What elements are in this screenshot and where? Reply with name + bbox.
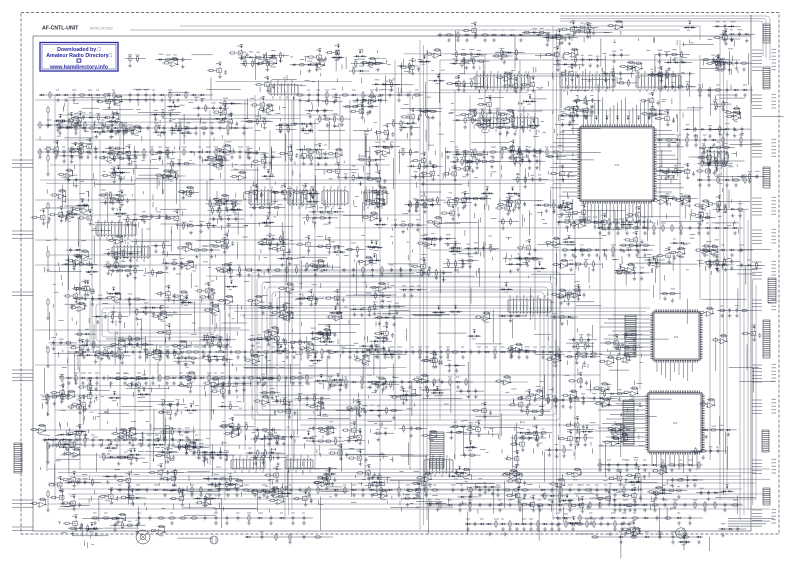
diode D209	[109, 121, 111, 123]
ground	[170, 131, 174, 135]
resistor R142	[552, 151, 560, 153]
IC pin wires	[290, 186, 313, 209]
label	[258, 512, 263, 514]
capacitor C7	[107, 126, 110, 131]
ground	[616, 468, 620, 472]
label	[632, 531, 636, 533]
U3 fan-out wires	[598, 397, 697, 474]
IC pin wires	[510, 295, 547, 317]
resistor R324	[429, 110, 437, 112]
resistor R317	[360, 99, 368, 101]
diode D1	[41, 94, 43, 96]
ground	[361, 493, 365, 497]
diode D3	[65, 94, 67, 96]
transistor Q8	[263, 81, 269, 89]
wire	[578, 31, 612, 33]
label	[498, 499, 501, 501]
ground	[170, 521, 174, 525]
junction	[641, 68, 642, 69]
resistor R226	[298, 64, 306, 66]
ground	[264, 355, 268, 359]
resistor R241	[446, 83, 454, 85]
power arrow	[528, 95, 531, 97]
ground	[557, 355, 561, 359]
resistor R256	[501, 49, 503, 57]
wire	[495, 126, 531, 128]
label	[110, 346, 115, 348]
resistor R38	[307, 348, 309, 356]
diode D123	[646, 536, 648, 538]
power arrow	[488, 96, 491, 98]
label	[243, 59, 247, 61]
ground	[70, 155, 74, 159]
capacitor C198	[658, 52, 661, 57]
transistor Q4	[555, 34, 561, 42]
ground	[456, 38, 460, 42]
power arrow	[595, 116, 598, 118]
resistor R128	[113, 439, 121, 441]
power arrow	[112, 115, 115, 117]
label	[325, 89, 329, 91]
diode D205	[118, 130, 120, 132]
op-amp A1	[614, 24, 623, 29]
label	[416, 376, 421, 378]
diode D190	[572, 63, 574, 65]
label	[579, 216, 583, 218]
ground	[107, 106, 111, 110]
label	[370, 96, 373, 98]
wire	[573, 99, 601, 101]
power arrow	[184, 127, 187, 129]
diode D150	[644, 249, 646, 251]
resistor R300	[258, 108, 266, 110]
ground	[144, 98, 148, 102]
diode D95	[559, 221, 561, 223]
transistor Q9	[315, 53, 321, 61]
resistor R325	[460, 113, 468, 115]
label	[259, 97, 263, 99]
diode D4	[89, 94, 91, 96]
resistor R123	[694, 501, 696, 509]
ground	[712, 253, 716, 257]
resistor R132	[341, 94, 349, 96]
label	[370, 104, 374, 106]
ground	[262, 109, 266, 113]
diode D25	[76, 351, 78, 353]
label	[593, 216, 597, 218]
wire	[483, 120, 490, 126]
capacitor C4	[145, 93, 148, 98]
capacitor C82	[303, 516, 306, 521]
diode D239	[532, 100, 534, 102]
diode D7	[177, 94, 179, 96]
label	[375, 79, 380, 81]
label	[715, 222, 720, 224]
label	[166, 54, 171, 56]
diode D84	[526, 351, 528, 353]
wire	[628, 62, 635, 68]
resistor R105	[362, 266, 364, 274]
resistor R138	[489, 151, 497, 153]
ground	[538, 508, 542, 512]
ground	[70, 125, 74, 129]
capacitor C190	[557, 62, 560, 67]
capacitor C42	[96, 376, 99, 381]
label	[155, 434, 159, 436]
capacitor C219	[309, 121, 312, 126]
resistor R277	[716, 58, 718, 66]
power arrow	[361, 103, 364, 105]
resistor R237	[425, 53, 433, 55]
label	[586, 216, 591, 218]
resistor R17	[79, 148, 81, 156]
label	[703, 134, 707, 136]
resistor R154	[275, 533, 277, 541]
ground	[570, 78, 574, 82]
resistor R164	[614, 520, 616, 528]
ground	[86, 155, 90, 159]
resistor R11	[155, 124, 157, 132]
capacitor C208	[82, 115, 85, 120]
ground	[399, 127, 403, 131]
ground	[586, 35, 590, 39]
ground	[114, 131, 118, 135]
capacitor C31	[328, 350, 331, 355]
ground	[560, 41, 564, 45]
ground	[46, 316, 50, 320]
label	[532, 28, 537, 30]
diode D232	[371, 99, 373, 101]
label	[428, 499, 431, 501]
capacitor C135	[510, 150, 513, 155]
power arrow	[586, 23, 589, 25]
label	[679, 459, 682, 461]
resistor R340	[506, 109, 514, 111]
resistor R125	[714, 501, 716, 509]
resistor R91	[190, 517, 198, 519]
ground	[325, 123, 329, 127]
label	[439, 346, 442, 348]
label	[589, 512, 593, 514]
transistor Q7	[215, 67, 221, 75]
label	[492, 29, 497, 31]
resistor R209	[171, 59, 179, 61]
resistor R312	[326, 98, 328, 106]
capacitor C203	[671, 84, 674, 89]
diode D119	[713, 139, 715, 141]
wire	[647, 73, 675, 75]
diode D94	[734, 227, 736, 229]
diode D234	[407, 122, 409, 124]
resistor R93	[579, 514, 581, 522]
label	[596, 55, 600, 57]
IC pin wires	[514, 113, 535, 132]
resistor R238	[433, 49, 441, 51]
label	[472, 56, 477, 58]
ground	[355, 104, 359, 108]
diode D126	[467, 523, 469, 525]
wire	[453, 119, 481, 121]
label	[722, 57, 725, 59]
ground	[337, 56, 341, 60]
label	[214, 372, 217, 374]
resistor R64	[361, 378, 363, 386]
diode D131	[523, 523, 525, 525]
wire	[354, 55, 367, 57]
diode D227	[309, 110, 311, 112]
diode D26	[83, 351, 85, 353]
diode D54	[393, 381, 395, 383]
ground	[51, 443, 55, 447]
label	[706, 222, 709, 224]
label	[392, 376, 395, 378]
wire	[245, 121, 273, 123]
ground	[64, 98, 68, 102]
label	[671, 531, 676, 533]
junction	[121, 101, 122, 102]
capacitor C106	[573, 220, 576, 225]
label	[723, 21, 726, 23]
ground	[717, 67, 721, 71]
label	[730, 21, 735, 23]
ground	[315, 68, 319, 72]
capacitor C159	[529, 503, 532, 508]
capacitor C5	[153, 93, 156, 98]
label	[56, 119, 60, 121]
ground	[361, 273, 365, 277]
label	[222, 146, 225, 148]
label	[368, 101, 372, 103]
label	[643, 459, 646, 461]
power arrow	[558, 29, 561, 31]
label	[343, 484, 346, 486]
label	[210, 122, 213, 124]
resistor R36	[283, 351, 291, 353]
wire	[720, 33, 756, 35]
ground	[619, 76, 623, 80]
ground	[334, 493, 338, 497]
resistor R205	[713, 36, 721, 38]
capacitor C70	[578, 488, 581, 493]
diode D63	[209, 489, 211, 491]
svg-text:BPDD 1473CB: BPDD 1473CB	[90, 27, 113, 31]
junction	[489, 125, 490, 126]
label	[491, 146, 496, 148]
resistor R231	[368, 58, 376, 60]
ground	[46, 220, 50, 224]
IC pin wires	[324, 186, 345, 209]
resistor R295	[162, 111, 164, 119]
resistor R29	[146, 348, 148, 356]
label	[72, 89, 77, 91]
wire	[365, 63, 413, 103]
capacitor C73	[116, 516, 119, 521]
diode D128	[488, 523, 490, 525]
ground	[226, 131, 230, 135]
label	[307, 60, 312, 62]
ground	[301, 126, 305, 130]
capacitor C142	[659, 535, 662, 540]
resistor R23	[215, 148, 217, 156]
ground	[501, 527, 505, 531]
label	[460, 484, 463, 486]
label	[538, 499, 541, 501]
ground	[172, 381, 176, 385]
wire	[427, 504, 643, 506]
diode D241	[535, 125, 537, 127]
label	[178, 122, 183, 124]
label	[392, 119, 396, 121]
diode D77	[612, 517, 614, 519]
resistor R20	[151, 148, 153, 156]
wire	[351, 63, 387, 65]
transistor Q16	[553, 51, 559, 59]
IC pin wires	[287, 455, 310, 473]
wire	[402, 62, 440, 116]
capacitor C51	[441, 380, 444, 385]
label	[733, 222, 736, 224]
label	[743, 174, 747, 176]
op-amp A11	[110, 116, 119, 121]
ground	[697, 231, 701, 235]
wire	[600, 38, 602, 66]
capacitor C111	[617, 463, 620, 468]
capacitor C90	[534, 350, 537, 355]
ground	[223, 106, 227, 110]
ground	[158, 155, 162, 159]
resistor R96	[451, 351, 459, 353]
ground	[163, 493, 167, 497]
label	[676, 134, 681, 136]
resistor R213	[207, 69, 215, 71]
ground	[643, 508, 647, 512]
resistor R197	[575, 30, 583, 32]
wire	[343, 106, 379, 108]
wire	[683, 27, 696, 29]
label	[471, 23, 474, 25]
wire	[318, 60, 325, 66]
ground	[242, 131, 246, 135]
resistor R218	[244, 60, 246, 68]
resistor R296	[218, 121, 226, 123]
capacitor C18	[87, 150, 90, 155]
diode D101	[653, 464, 655, 466]
resistor R195	[523, 31, 531, 33]
resistor R10	[128, 127, 136, 129]
capacitor C189	[520, 86, 523, 91]
ground	[546, 38, 550, 42]
ground	[568, 508, 572, 512]
capacitor C9	[163, 126, 166, 131]
transistor Q26	[357, 108, 363, 116]
diode D130	[516, 523, 518, 525]
wire	[657, 139, 753, 141]
resistor R19	[143, 148, 145, 156]
ground	[734, 183, 738, 187]
resistor R102	[274, 269, 282, 271]
op-amp A14	[265, 108, 274, 113]
resistor R328	[482, 109, 484, 117]
ground	[684, 540, 688, 544]
resistor R179	[561, 249, 569, 251]
ground	[263, 125, 267, 129]
diode D92	[716, 227, 718, 229]
resistor R189	[47, 298, 49, 306]
capacitor C80	[270, 516, 273, 521]
label	[152, 89, 155, 91]
ground	[446, 155, 450, 159]
diode D107	[100, 439, 102, 441]
resistor R276	[687, 83, 689, 91]
label	[144, 89, 148, 91]
resistor R134	[371, 91, 373, 99]
wire	[270, 58, 277, 64]
ground	[411, 71, 415, 75]
ground	[572, 225, 576, 229]
wire	[153, 131, 166, 133]
resistor R109	[662, 224, 664, 232]
label	[88, 372, 92, 374]
transistor Q14	[528, 81, 534, 89]
capacitor C220	[316, 108, 319, 113]
capacitor C214	[230, 112, 233, 117]
connector P7 right edge	[763, 488, 770, 505]
connector P3 right edge	[763, 167, 770, 188]
ground	[308, 114, 312, 118]
svg-text:IC1: IC1	[615, 163, 620, 167]
ground	[667, 143, 671, 147]
ground	[115, 443, 119, 447]
ground	[513, 132, 517, 136]
label	[461, 346, 464, 348]
ground	[46, 268, 50, 272]
capacitor C63	[452, 488, 455, 493]
diode D61	[164, 489, 166, 491]
resistor R137	[474, 148, 476, 156]
diode D188	[508, 51, 510, 53]
capacitor C179	[181, 57, 184, 62]
ground	[214, 521, 218, 525]
label	[238, 264, 241, 266]
resistor R122	[674, 501, 676, 509]
ground	[262, 493, 266, 497]
label	[607, 459, 611, 461]
resistor R248	[460, 53, 468, 55]
ground	[390, 88, 394, 92]
wire	[173, 114, 216, 144]
ground	[739, 143, 743, 147]
ground	[408, 69, 412, 73]
resistor R117	[662, 461, 664, 469]
ground	[78, 155, 82, 159]
label	[529, 518, 533, 520]
IC pin wires	[480, 113, 501, 132]
resistor R172	[626, 504, 634, 506]
wire	[322, 101, 343, 103]
ground	[169, 118, 173, 122]
label	[598, 459, 601, 461]
resistor R258	[559, 73, 567, 75]
capacitor C83	[590, 516, 593, 521]
op-amp A13	[132, 129, 141, 134]
ground	[179, 381, 183, 385]
label	[95, 372, 99, 374]
wire	[91, 131, 127, 133]
diode D145	[726, 179, 728, 181]
diode D196	[714, 61, 716, 63]
resistor R99	[558, 348, 560, 356]
diode D46	[201, 377, 203, 379]
